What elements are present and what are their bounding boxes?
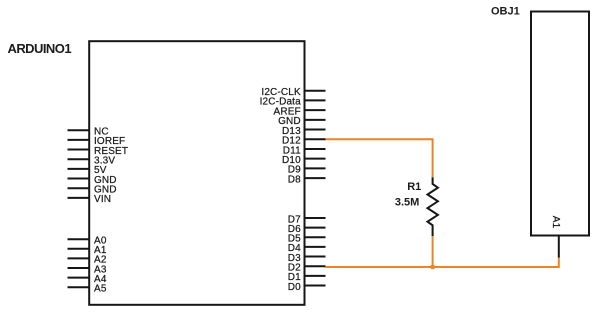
svg-text:R1: R1	[407, 181, 421, 193]
svg-text:D8: D8	[288, 174, 301, 185]
svg-text:ARDUINO1: ARDUINO1	[8, 41, 72, 56]
svg-text:D0: D0	[288, 282, 301, 293]
svg-text:VIN: VIN	[94, 194, 111, 205]
svg-text:3.5M: 3.5M	[395, 197, 419, 209]
svg-text:A1: A1	[550, 216, 561, 229]
svg-text:OBJ1: OBJ1	[491, 6, 520, 18]
svg-text:A5: A5	[94, 284, 107, 295]
